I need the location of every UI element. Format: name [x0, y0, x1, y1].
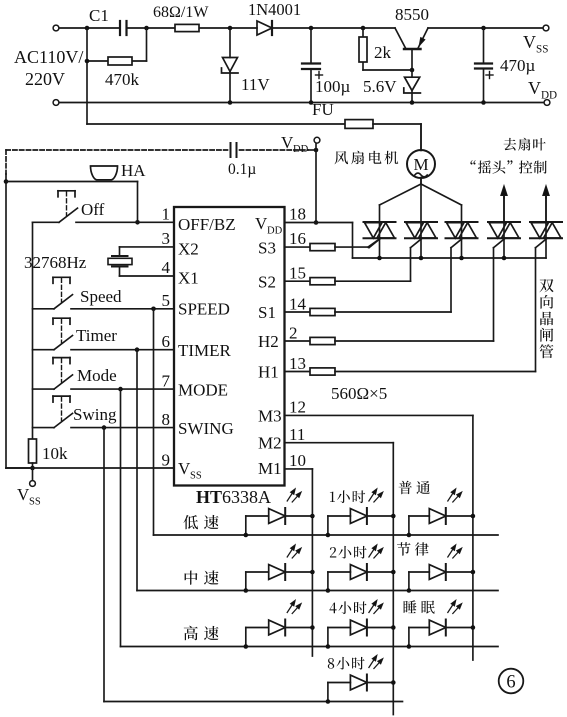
svg-text:5.6V: 5.6V	[363, 77, 397, 96]
svg-text:SS: SS	[29, 497, 41, 508]
svg-text:8550: 8550	[395, 5, 429, 24]
svg-text:SWING: SWING	[178, 419, 234, 438]
svg-text:SS: SS	[190, 471, 202, 482]
svg-text:DD: DD	[293, 144, 309, 155]
svg-text:AC110V/: AC110V/	[14, 47, 83, 67]
svg-text:SS: SS	[536, 44, 548, 56]
svg-text:10k: 10k	[42, 444, 68, 463]
svg-text:7: 7	[162, 372, 171, 391]
svg-text:S3: S3	[258, 239, 276, 258]
svg-text:8: 8	[162, 410, 171, 429]
svg-text:5: 5	[162, 291, 171, 310]
svg-text:13: 13	[289, 354, 306, 373]
svg-text:C1: C1	[89, 6, 109, 25]
svg-text:Mode: Mode	[77, 366, 117, 385]
svg-text:M: M	[413, 155, 428, 174]
svg-text:100µ: 100µ	[315, 77, 351, 96]
svg-text:DD: DD	[267, 226, 283, 237]
svg-text:X2: X2	[178, 240, 199, 259]
svg-text:Off: Off	[81, 200, 105, 219]
svg-text:12: 12	[289, 398, 306, 417]
svg-text:6: 6	[162, 332, 171, 351]
svg-text:FU: FU	[312, 100, 334, 119]
svg-text:14: 14	[289, 295, 307, 314]
svg-text:Swing: Swing	[73, 405, 117, 424]
svg-text:H1: H1	[258, 363, 279, 382]
svg-text:SPEED: SPEED	[178, 300, 230, 319]
svg-text:220V: 220V	[25, 69, 65, 89]
svg-text:470k: 470k	[105, 70, 140, 89]
svg-text:10: 10	[289, 451, 306, 470]
svg-text:15: 15	[289, 264, 306, 283]
svg-text:3: 3	[162, 229, 171, 248]
svg-text:OFF/BZ: OFF/BZ	[178, 215, 236, 234]
svg-text:S2: S2	[258, 273, 276, 292]
svg-text:2: 2	[289, 324, 298, 343]
svg-text:1: 1	[162, 205, 171, 224]
svg-text:9: 9	[162, 451, 171, 470]
svg-text:TIMER: TIMER	[178, 341, 232, 360]
svg-text:HT: HT	[196, 487, 222, 507]
svg-text:M2: M2	[258, 434, 282, 453]
svg-text:560Ω×5: 560Ω×5	[331, 384, 387, 403]
svg-text:V: V	[528, 78, 541, 98]
svg-text:1N4001: 1N4001	[248, 0, 301, 19]
svg-text:M1: M1	[258, 459, 282, 478]
svg-text:X1: X1	[178, 269, 199, 288]
svg-text:Timer: Timer	[76, 326, 117, 345]
svg-text:18: 18	[289, 205, 306, 224]
svg-text:S1: S1	[258, 303, 276, 322]
svg-text:470µ: 470µ	[500, 56, 536, 75]
svg-text:2k: 2k	[374, 43, 392, 62]
svg-text:M3: M3	[258, 407, 282, 426]
svg-text:32768Hz: 32768Hz	[24, 253, 87, 272]
svg-text:0.1µ: 0.1µ	[228, 161, 256, 178]
svg-text:V: V	[523, 32, 536, 52]
svg-text:6: 6	[506, 673, 515, 693]
svg-text:6338A: 6338A	[222, 487, 271, 507]
svg-text:HA: HA	[121, 161, 146, 180]
svg-text:16: 16	[289, 229, 306, 248]
svg-text:68Ω/1W: 68Ω/1W	[153, 4, 209, 21]
svg-text:Speed: Speed	[80, 287, 122, 306]
svg-text:4: 4	[162, 258, 171, 277]
svg-text:H2: H2	[258, 332, 279, 351]
svg-text:11V: 11V	[241, 75, 270, 94]
svg-text:MODE: MODE	[178, 381, 228, 400]
svg-text:11: 11	[289, 425, 305, 444]
